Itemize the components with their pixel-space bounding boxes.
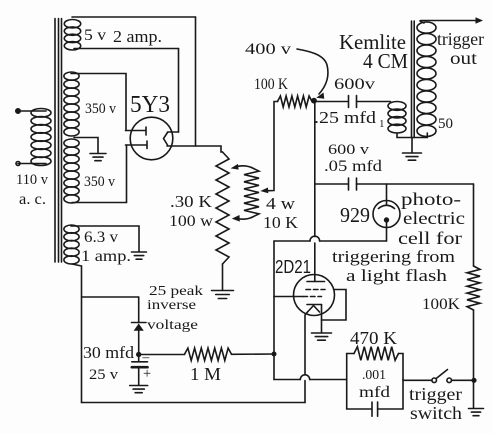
svg-text:1 amp.: 1 amp. <box>81 248 131 265</box>
svg-text:4 CM: 4 CM <box>363 49 408 73</box>
label .05 mfd <box>324 158 382 175</box>
diode D1 <box>132 323 147 331</box>
label 25 V <box>89 367 119 383</box>
svg-text:–: – <box>142 349 150 364</box>
wire R6 to ground <box>473 310 475 408</box>
label 350V upper <box>85 101 117 117</box>
svg-text:switch: switch <box>410 403 462 423</box>
ground center tap <box>90 154 106 161</box>
svg-text:.25 mfd: .25 mfd <box>314 108 377 127</box>
label 4 W <box>266 194 295 213</box>
svg-text:a. c.: a. c. <box>19 191 46 208</box>
svg-text:out: out <box>450 48 477 68</box>
wire 2D21 cathode stem <box>321 305 323 333</box>
label 400 V <box>245 41 291 58</box>
wire 2D21 filament lead <box>305 312 308 403</box>
wire trigger out <box>420 17 483 24</box>
svg-text:50: 50 <box>438 116 453 132</box>
wire 6.3V bottom down <box>72 264 82 403</box>
tube 2D21 filament <box>308 306 320 313</box>
wire switch to right rail <box>452 379 475 381</box>
svg-text:4 w: 4 w <box>266 194 295 213</box>
switch SW1 <box>432 370 452 383</box>
label .25 mfd <box>314 108 385 130</box>
tube 2D21 envelope <box>294 275 335 316</box>
wire R1 to ground <box>222 264 224 290</box>
svg-text:100K: 100K <box>422 296 461 313</box>
ground R1 <box>212 291 234 299</box>
wire output to R1 <box>221 146 223 152</box>
label 2D21 <box>275 257 311 277</box>
svg-text:triggering from: triggering from <box>332 247 455 266</box>
label photo- <box>401 189 461 209</box>
label Kemlite <box>339 30 406 54</box>
svg-text:voltage: voltage <box>147 317 198 332</box>
wire rail right vertical <box>195 17 197 146</box>
svg-text:25 v: 25 v <box>89 367 119 383</box>
transformer T1 primary winding <box>31 109 51 166</box>
svg-text:100 K: 100 K <box>254 76 289 93</box>
svg-text:600v: 600v <box>334 76 375 93</box>
resistor R4 1M <box>185 348 232 360</box>
wire 5V top to rail <box>72 16 196 18</box>
node 400V junction <box>312 99 316 103</box>
wire filament top lead <box>168 131 179 133</box>
svg-text:5 v: 5 v <box>84 27 106 44</box>
wire grid vertical <box>273 241 275 380</box>
tube 5Y3 lower plate <box>126 141 148 149</box>
resistor R3 100K <box>278 96 313 107</box>
label 10 K <box>263 213 298 232</box>
capacitor C3 30mfd <box>132 355 148 386</box>
label 600 V <box>328 142 370 158</box>
wire cathode output <box>167 145 221 147</box>
transformer T2 core <box>412 21 415 138</box>
tube 2D21 grid row1 <box>306 289 325 291</box>
wire bottom rail <box>82 402 306 404</box>
label 600V <box>334 76 375 93</box>
tube 2D21 plate <box>307 281 325 283</box>
svg-text:1: 1 <box>379 118 385 130</box>
label trigger (switch) <box>409 384 462 404</box>
svg-text:600 v: 600 v <box>328 142 370 158</box>
node diode junction <box>137 353 141 357</box>
wire 2D21 shield to ground <box>322 290 347 321</box>
wire filament vertical <box>178 49 180 133</box>
svg-text:350 v: 350 v <box>84 174 116 190</box>
svg-text:400 v: 400 v <box>245 41 291 58</box>
svg-text:6.3 v: 6.3 v <box>84 229 118 246</box>
svg-text:5Y3: 5Y3 <box>130 92 170 118</box>
label 110 V <box>16 172 49 188</box>
svg-text:2D21: 2D21 <box>275 257 311 277</box>
label a.c. <box>19 191 46 208</box>
label 30 mfd <box>83 343 135 362</box>
wire primary bottom terminal <box>16 162 46 166</box>
transformer T1 350V lower winding <box>64 139 79 203</box>
svg-text:10 K: 10 K <box>263 213 298 232</box>
tube 929 envelope <box>373 201 400 228</box>
node grid/1M junction <box>272 352 275 355</box>
svg-text:110 v: 110 v <box>16 172 49 188</box>
label voltage <box>147 317 198 332</box>
label 5Y3 <box>130 92 170 118</box>
wire C2 to right <box>357 183 474 185</box>
label 100 K <box>254 76 289 93</box>
label 1 amp. <box>81 248 131 265</box>
label a light flash <box>346 266 448 285</box>
wire 929 anode to grid line <box>274 236 387 241</box>
wire 2D21 grid lead <box>274 296 303 298</box>
wire C1 to T2 primary <box>357 101 391 103</box>
label mfd <box>359 384 390 401</box>
tube 929 cathode arc <box>379 205 395 208</box>
svg-text:350 v: 350 v <box>85 101 117 117</box>
svg-text:a light flash: a light flash <box>346 266 448 285</box>
wire junction to C1 <box>314 101 348 103</box>
wire R4 to grid line <box>232 353 275 355</box>
tube 5Y3 envelope <box>130 117 173 160</box>
wire 400V arrow curve <box>297 49 328 99</box>
tube 929 anode <box>385 218 389 241</box>
wire 350V bottom to plate <box>72 145 127 203</box>
label 100K <box>422 296 461 313</box>
wire R2 top tap arrow <box>231 164 252 170</box>
wire C2 line down to R6 <box>473 184 475 266</box>
label triggering from <box>332 247 455 266</box>
label electric <box>403 208 465 228</box>
svg-text:25 peak: 25 peak <box>149 283 203 298</box>
label plus <box>143 366 151 382</box>
resistor R6 100K <box>467 266 480 310</box>
tube 5Y3 filament <box>164 133 168 146</box>
transformer T1 6.3V winding <box>64 225 79 264</box>
label minus <box>142 349 150 364</box>
label 25 peak <box>149 283 203 298</box>
label 100 W <box>169 213 214 230</box>
transformer T2 secondary winding <box>417 22 436 137</box>
wire primary top terminal <box>16 109 46 113</box>
svg-text:.05 mfd: .05 mfd <box>324 158 382 175</box>
svg-text:1 M: 1 M <box>190 364 221 384</box>
wire grid to 470K box <box>274 375 347 380</box>
label 470 K <box>350 328 397 348</box>
wire T2 bottom bracket <box>397 133 427 153</box>
wire 6.3V top to ground <box>71 226 139 252</box>
transformer T2 primary winding <box>388 102 406 134</box>
label cell for <box>398 228 462 248</box>
tube 5Y3 upper plate <box>126 127 147 135</box>
label 1 M <box>190 364 221 384</box>
label 50 <box>438 116 453 132</box>
wire 400V node down <box>314 102 316 282</box>
label 2 amp. <box>113 27 162 46</box>
label trigger (out) <box>437 29 484 49</box>
ground 2D21 <box>312 333 332 340</box>
svg-text:cell for: cell for <box>398 228 462 248</box>
resistor R1 .30K 100W <box>216 152 229 264</box>
wire junction to R4 <box>139 354 185 356</box>
svg-text:100 w: 100 w <box>169 213 214 230</box>
transformer T1 core <box>55 19 62 263</box>
label 929 <box>340 203 370 227</box>
label 6.3 V <box>84 229 118 246</box>
capacitor C4 .001 mfd <box>347 380 403 417</box>
tube 2D21 grid row2 <box>303 296 322 298</box>
wire 5V bottom <box>74 48 179 50</box>
label inverse <box>147 297 196 312</box>
label out <box>450 48 477 68</box>
ground switch rail <box>469 409 484 416</box>
svg-text:trigger: trigger <box>409 384 462 404</box>
wire 350V top to plate <box>71 74 126 131</box>
wire to C2 <box>315 183 348 185</box>
wire center tap <box>74 138 98 154</box>
arrow R2 wiper <box>260 188 268 194</box>
svg-text:inverse: inverse <box>147 297 196 312</box>
node switch junction <box>472 379 476 383</box>
resistor R5 470K <box>347 347 403 380</box>
label 350V lower <box>84 174 116 190</box>
svg-text:trigger: trigger <box>437 29 484 49</box>
label .001 <box>362 367 386 382</box>
svg-text:.30 K: .30 K <box>170 192 212 211</box>
svg-text:470 K: 470 K <box>350 328 397 348</box>
svg-text:photo-: photo- <box>401 189 461 209</box>
svg-text:30 mfd: 30 mfd <box>83 343 135 362</box>
wire R2 bottom tap arrow <box>232 215 252 222</box>
label switch <box>410 403 462 423</box>
ground T2 <box>403 153 422 160</box>
wire box to switch <box>403 379 432 381</box>
svg-text:2 amp.: 2 amp. <box>113 27 162 46</box>
label 5 V <box>84 27 106 44</box>
wire 929 top lead <box>386 184 388 205</box>
transformer T1 350V upper winding <box>64 72 79 136</box>
svg-text:electric: electric <box>403 208 465 228</box>
svg-text:.001: .001 <box>362 367 386 382</box>
ground 6.3V <box>132 252 147 259</box>
wire diode to junction <box>138 331 140 355</box>
label 4 CM <box>363 49 408 73</box>
capacitor C1 plates <box>349 96 357 108</box>
resistor R2 10K 4W <box>244 168 259 218</box>
svg-text:+: + <box>143 366 151 382</box>
wire R3 left lead down to R2 wiper <box>266 102 278 191</box>
label .30 K <box>170 192 212 211</box>
ground C3 <box>130 386 148 393</box>
capacitor C2 plates <box>349 178 357 190</box>
wire 6.3V to diode <box>82 297 139 323</box>
svg-text:mfd: mfd <box>359 384 390 401</box>
svg-text:929: 929 <box>340 203 370 227</box>
tube 2D21 cathode bar <box>307 304 322 306</box>
transformer T1 5V winding <box>64 20 80 51</box>
